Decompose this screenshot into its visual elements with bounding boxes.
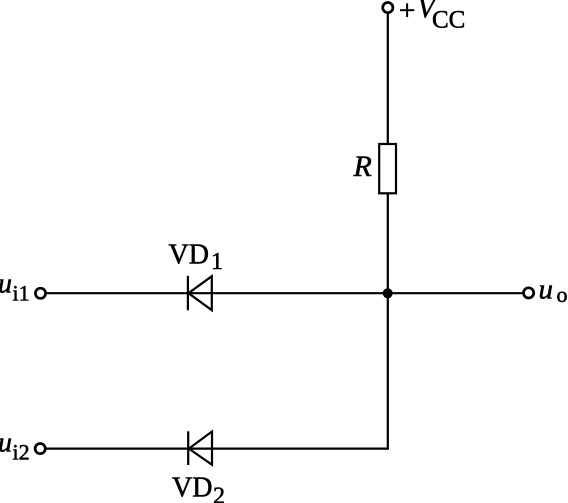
svg-text:2: 2 — [213, 484, 225, 503]
label +VCC — [400, 0, 465, 33]
svg-text:VD: VD — [169, 240, 209, 271]
wire VCC to resistor — [387, 13, 389, 145]
wire resistor to node and down to corner — [387, 193, 389, 449]
node junction dot — [383, 288, 393, 298]
terminal u_o — [524, 288, 534, 298]
terminal u_i1 — [35, 288, 45, 298]
svg-text:o: o — [557, 282, 568, 307]
wire u_i2 to corner (through VD2) — [46, 448, 389, 450]
terminal u_i2 — [35, 444, 45, 454]
svg-text:u: u — [0, 427, 12, 458]
terminal +VCC — [383, 3, 393, 13]
svg-text:u: u — [539, 274, 554, 306]
svg-text:1: 1 — [211, 249, 223, 275]
svg-text:i1: i1 — [13, 281, 30, 306]
label u_i1 — [0, 269, 30, 306]
svg-text:VD: VD — [172, 473, 212, 503]
svg-text:u: u — [0, 269, 12, 300]
svg-text:R: R — [353, 150, 372, 183]
label VD1 — [169, 240, 224, 276]
label u_o — [539, 274, 568, 307]
svg-text:CC: CC — [432, 6, 465, 33]
svg-text:i2: i2 — [13, 439, 30, 464]
label u_i2 — [0, 427, 30, 464]
resistor R — [379, 144, 396, 193]
diode VD1 — [188, 276, 212, 311]
diode VD2 — [188, 431, 212, 465]
wire u_i1 to node (through VD1) — [46, 292, 524, 294]
label VD2 — [172, 473, 225, 503]
